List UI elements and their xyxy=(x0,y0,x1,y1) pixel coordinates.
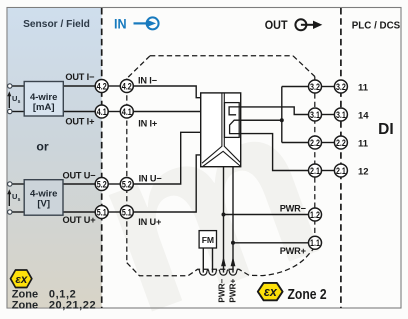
svg-text:3.1: 3.1 xyxy=(336,109,346,120)
svg-text:OUT I−: OUT I− xyxy=(65,72,94,82)
svg-text:IN: IN xyxy=(114,16,127,32)
svg-text:εx: εx xyxy=(264,285,278,299)
svg-text:PLC / DCS: PLC / DCS xyxy=(352,21,401,32)
svg-text:5.2: 5.2 xyxy=(122,178,132,189)
svg-text:s: s xyxy=(18,99,21,105)
svg-text:IN U+: IN U+ xyxy=(138,217,161,227)
svg-text:IN I+: IN I+ xyxy=(138,119,157,129)
svg-text:PWR+: PWR+ xyxy=(229,278,238,302)
svg-text:DI: DI xyxy=(378,121,394,138)
svg-text:[V]: [V] xyxy=(37,198,50,209)
svg-text:11: 11 xyxy=(358,139,369,150)
svg-text:εx: εx xyxy=(15,274,28,286)
svg-text:5.2: 5.2 xyxy=(97,178,107,189)
svg-text:U: U xyxy=(12,94,17,103)
svg-text:3.2: 3.2 xyxy=(336,81,346,92)
svg-text:Zone: Zone xyxy=(12,300,38,312)
svg-text:4.2: 4.2 xyxy=(97,80,107,91)
svg-text:FM: FM xyxy=(202,235,214,245)
svg-text:1.1: 1.1 xyxy=(310,237,320,248)
svg-text:IN U−: IN U− xyxy=(139,174,162,184)
svg-text:Zone 2: Zone 2 xyxy=(288,286,327,302)
svg-text:PWR+: PWR+ xyxy=(280,246,306,256)
svg-text:3.2: 3.2 xyxy=(310,81,320,92)
svg-text:s: s xyxy=(18,197,21,203)
svg-text:OUT U+: OUT U+ xyxy=(62,215,95,225)
svg-text:PWR−: PWR− xyxy=(218,278,227,302)
svg-text:3.1: 3.1 xyxy=(310,109,320,120)
svg-text:U: U xyxy=(12,192,17,201)
svg-text:OUT I+: OUT I+ xyxy=(65,117,94,127)
svg-text:2.2: 2.2 xyxy=(310,137,320,148)
svg-text:PWR−: PWR− xyxy=(280,203,306,213)
svg-text:Sensor / Field: Sensor / Field xyxy=(23,19,90,30)
svg-text:OUT U−: OUT U− xyxy=(62,170,95,180)
svg-text:5.1: 5.1 xyxy=(122,206,132,217)
svg-text:2.2: 2.2 xyxy=(336,137,346,148)
svg-text:14: 14 xyxy=(358,111,369,122)
svg-text:20,21,22: 20,21,22 xyxy=(49,300,96,312)
svg-text:[mA]: [mA] xyxy=(33,102,55,113)
svg-text:1.2: 1.2 xyxy=(310,209,320,220)
svg-text:OUT: OUT xyxy=(265,19,288,31)
svg-text:4.2: 4.2 xyxy=(122,80,132,91)
svg-text:5.1: 5.1 xyxy=(97,206,107,217)
svg-text:or: or xyxy=(36,140,49,154)
svg-text:IN I−: IN I− xyxy=(138,76,157,86)
svg-text:2.1: 2.1 xyxy=(310,165,320,176)
svg-text:4.1: 4.1 xyxy=(97,106,107,117)
svg-text:11: 11 xyxy=(358,83,369,94)
svg-text:4.1: 4.1 xyxy=(122,106,132,117)
svg-text:2.1: 2.1 xyxy=(336,165,346,176)
svg-text:12: 12 xyxy=(358,167,369,178)
